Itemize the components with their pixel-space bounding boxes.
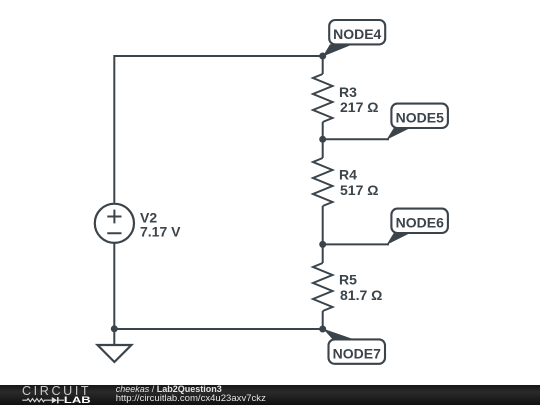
resistor R4 (313, 158, 333, 206)
wire NODE5 stub (323, 138, 389, 140)
node NODE5 (387, 104, 448, 140)
wire left lower (V2 to ground junction) (113, 244, 115, 330)
svg-text:NODE7: NODE7 (333, 345, 381, 361)
node NODE4 (323, 20, 386, 57)
svg-text:LAB: LAB (64, 396, 91, 405)
svg-text:http://circuitlab.com/cx4u23ax: http://circuitlab.com/cx4u23axv7ckz (116, 393, 266, 404)
svg-text:NODE5: NODE5 (396, 110, 444, 126)
junction ground node (111, 325, 118, 332)
ground (98, 329, 132, 362)
logo resistor zigzag (22, 399, 52, 402)
wire R4 upper lead (322, 139, 324, 158)
wire right upper lead R3 (322, 56, 324, 74)
logo diode (52, 397, 64, 403)
wire NODE6 stub (323, 243, 389, 245)
resistor R5 (313, 263, 333, 311)
svg-text:NODE6: NODE6 (396, 215, 444, 231)
junction node7 dot (319, 326, 326, 333)
junction node5 dot (319, 136, 326, 143)
svg-text:517 Ω: 517 Ω (340, 182, 378, 198)
wire top (V2 plus to NODE4) (114, 55, 322, 57)
svg-text:81.7 Ω: 81.7 Ω (340, 287, 382, 303)
svg-text:R3: R3 (339, 84, 357, 100)
node NODE7 (323, 329, 385, 364)
wire left upper (top corner down to V2) (113, 55, 115, 203)
footer bar (0, 385, 540, 405)
voltage source V2 (95, 204, 134, 243)
junction node6 dot (319, 241, 326, 248)
wire R5 lower lead (322, 311, 324, 329)
svg-text:7.17 V: 7.17 V (140, 224, 181, 240)
wire R3 lower lead (322, 122, 324, 139)
svg-text:R4: R4 (339, 167, 357, 183)
wire R5 upper lead (322, 244, 324, 263)
wire R4 lower lead (322, 206, 324, 244)
svg-text:NODE4: NODE4 (333, 26, 381, 42)
svg-text:R5: R5 (339, 272, 357, 288)
wire bottom (ground junction to NODE7) (114, 328, 322, 330)
junction node4 dot (319, 53, 326, 60)
resistor R3 (313, 74, 333, 122)
svg-text:217 Ω: 217 Ω (340, 99, 378, 115)
node NODE6 (387, 209, 448, 245)
